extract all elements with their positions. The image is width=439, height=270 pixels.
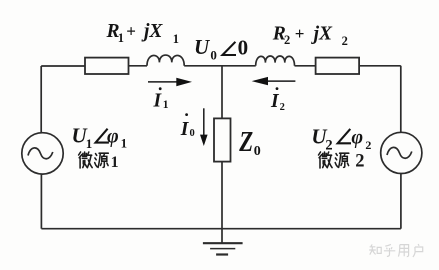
svg-text:1: 1 [173, 32, 179, 46]
svg-text:1: 1 [111, 154, 119, 171]
svg-text:Z: Z [238, 125, 253, 157]
svg-text:φ: φ [107, 125, 119, 147]
svg-text:I: I [180, 119, 190, 140]
svg-text:0: 0 [190, 128, 195, 139]
svg-text:1: 1 [121, 135, 128, 150]
svg-text:jX: jX [311, 23, 333, 44]
svg-text:2: 2 [280, 102, 285, 113]
svg-text:2: 2 [284, 33, 290, 47]
svg-text:0: 0 [238, 36, 249, 60]
svg-text:I: I [153, 90, 163, 111]
svg-text:1: 1 [163, 99, 169, 111]
svg-text:2: 2 [365, 138, 371, 152]
svg-text:+: + [295, 24, 305, 43]
svg-text:U: U [194, 35, 211, 59]
svg-text:jX: jX [141, 21, 163, 42]
svg-text:2: 2 [342, 34, 348, 48]
svg-text:1: 1 [118, 31, 124, 45]
svg-text:1: 1 [86, 136, 93, 151]
svg-text:I: I [270, 91, 280, 112]
svg-text:+: + [126, 22, 136, 41]
svg-text:2: 2 [355, 151, 364, 171]
svg-text:0: 0 [210, 48, 217, 63]
svg-text:2: 2 [325, 138, 332, 154]
svg-text:φ: φ [351, 127, 363, 149]
svg-text:0: 0 [254, 144, 261, 159]
